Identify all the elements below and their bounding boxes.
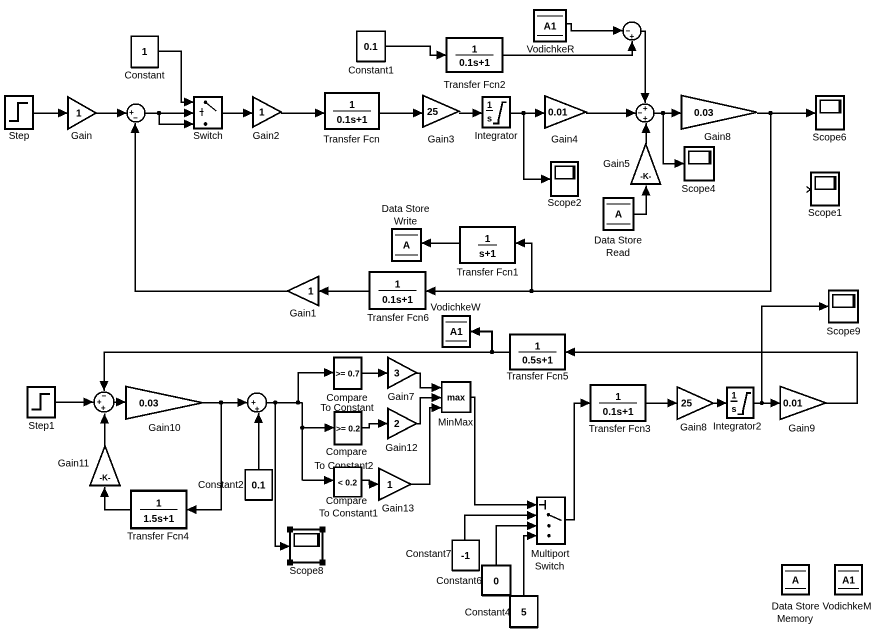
svg-text:Switch: Switch <box>535 562 564 573</box>
svg-text:Scope9: Scope9 <box>827 326 861 337</box>
svg-text:>= 0.2: >= 0.2 <box>336 424 360 434</box>
svg-text:A1: A1 <box>544 21 557 32</box>
svg-text:A: A <box>792 575 799 586</box>
svg-text:VodichkeW: VodichkeW <box>430 303 481 314</box>
svg-text:-1: -1 <box>461 551 470 562</box>
svg-text:Data Store: Data Store <box>594 236 642 247</box>
svg-text:< 0.2: < 0.2 <box>338 478 357 488</box>
svg-text:Scope4: Scope4 <box>682 184 716 195</box>
svg-text:0.5s+1: 0.5s+1 <box>522 356 553 367</box>
svg-text:1: 1 <box>308 287 314 298</box>
svg-text:1: 1 <box>485 234 491 245</box>
svg-text:+: + <box>101 404 106 413</box>
svg-text:Data Store: Data Store <box>772 602 820 613</box>
svg-text:1: 1 <box>387 480 393 491</box>
svg-text:Memory: Memory <box>777 614 813 625</box>
svg-text:0.1s+1: 0.1s+1 <box>603 407 634 418</box>
svg-text:Transfer Fcn1: Transfer Fcn1 <box>457 268 519 279</box>
svg-text:Gain10: Gain10 <box>148 423 181 434</box>
svg-text:A1: A1 <box>842 575 855 586</box>
svg-text:s+1: s+1 <box>479 249 496 260</box>
svg-text:Scope8: Scope8 <box>290 566 324 577</box>
svg-text:Gain1: Gain1 <box>290 308 317 319</box>
svg-text:+: + <box>629 32 634 41</box>
svg-text:Transfer Fcn: Transfer Fcn <box>323 135 379 146</box>
svg-text:0.1: 0.1 <box>364 42 378 53</box>
svg-text:1: 1 <box>349 100 355 111</box>
svg-text:Gain4: Gain4 <box>551 135 578 146</box>
svg-text:-K-: -K- <box>640 172 651 181</box>
svg-text:Write: Write <box>394 217 418 228</box>
svg-text:1: 1 <box>615 392 621 403</box>
svg-text:0.1s+1: 0.1s+1 <box>337 115 368 126</box>
svg-text:Constant: Constant <box>124 71 164 82</box>
svg-text:Constant1: Constant1 <box>348 66 394 77</box>
svg-text:>= 0.7: >= 0.7 <box>335 369 359 379</box>
svg-text:Integrator2: Integrator2 <box>713 422 762 433</box>
svg-text:max: max <box>447 393 465 403</box>
svg-text:0.1: 0.1 <box>252 481 266 492</box>
svg-text:+: + <box>643 114 648 123</box>
svg-text:0.01: 0.01 <box>783 398 803 409</box>
svg-text:1.5s+1: 1.5s+1 <box>143 514 174 525</box>
svg-text:A1: A1 <box>450 327 463 338</box>
svg-text:To Constant1: To Constant1 <box>319 509 378 520</box>
svg-text:−: − <box>133 113 138 122</box>
svg-text:Constant2: Constant2 <box>198 480 244 491</box>
svg-text:+: + <box>255 405 260 414</box>
svg-text:VodichkeM: VodichkeM <box>823 602 872 613</box>
svg-text:1: 1 <box>395 280 401 291</box>
svg-text:s: s <box>731 404 736 414</box>
svg-text:Step: Step <box>9 131 30 142</box>
svg-text:Constant7: Constant7 <box>406 549 452 560</box>
svg-text:5: 5 <box>521 608 527 619</box>
svg-text:Multiport: Multiport <box>531 549 570 560</box>
svg-text:1: 1 <box>76 109 82 120</box>
svg-text:VodichkeR: VodichkeR <box>527 45 575 56</box>
svg-text:1: 1 <box>535 341 541 352</box>
svg-text:Transfer Fcn4: Transfer Fcn4 <box>127 532 189 543</box>
svg-text:Compare: Compare <box>326 496 368 507</box>
svg-text:Switch: Switch <box>193 131 222 142</box>
svg-text:Constant4: Constant4 <box>465 608 511 619</box>
svg-text:Gain12: Gain12 <box>385 443 418 454</box>
svg-text:0: 0 <box>493 577 499 588</box>
svg-text:A: A <box>403 241 410 252</box>
svg-text:Transfer Fcn2: Transfer Fcn2 <box>444 80 506 91</box>
svg-text:1: 1 <box>487 100 492 110</box>
svg-text:Gain7: Gain7 <box>388 392 415 403</box>
svg-text:MinMax: MinMax <box>438 418 473 429</box>
svg-text:-K-: -K- <box>99 474 110 483</box>
svg-text:Gain8: Gain8 <box>680 422 707 433</box>
svg-text:Transfer Fcn6: Transfer Fcn6 <box>367 313 429 324</box>
svg-text:Gain3: Gain3 <box>428 135 455 146</box>
svg-text:25: 25 <box>681 399 693 410</box>
svg-text:1: 1 <box>142 47 148 58</box>
svg-text:Gain5: Gain5 <box>603 159 630 170</box>
svg-text:Gain9: Gain9 <box>788 424 815 435</box>
svg-text:Compare: Compare <box>326 393 368 404</box>
svg-text:1: 1 <box>156 498 162 509</box>
svg-text:Gain: Gain <box>71 131 92 142</box>
svg-text:0.01: 0.01 <box>548 108 568 119</box>
svg-text:Gain2: Gain2 <box>253 131 280 142</box>
svg-text:0.03: 0.03 <box>139 398 159 409</box>
svg-text:Scope6: Scope6 <box>813 133 847 144</box>
svg-text:s: s <box>487 114 492 124</box>
svg-text:Constant6: Constant6 <box>436 576 482 587</box>
svg-text:Read: Read <box>606 248 630 259</box>
svg-text:Transfer Fcn5: Transfer Fcn5 <box>507 372 569 383</box>
svg-text:25: 25 <box>427 107 439 118</box>
svg-text:A: A <box>615 210 622 221</box>
svg-text:Scope1: Scope1 <box>808 208 842 219</box>
svg-text:Integrator: Integrator <box>475 131 518 142</box>
svg-text:2: 2 <box>394 419 400 430</box>
svg-text:Gain13: Gain13 <box>382 504 415 515</box>
svg-text:0.1s+1: 0.1s+1 <box>382 295 413 306</box>
svg-text:−: − <box>101 392 106 401</box>
svg-text:Compare: Compare <box>326 447 368 458</box>
svg-text:−: − <box>637 109 642 118</box>
svg-text:1: 1 <box>472 45 478 56</box>
svg-text:0.1s+1: 0.1s+1 <box>459 58 490 69</box>
svg-text:Data Store: Data Store <box>382 204 430 215</box>
svg-text:Step1: Step1 <box>28 421 55 432</box>
svg-text:Transfer Fcn3: Transfer Fcn3 <box>589 424 651 435</box>
svg-text:1: 1 <box>259 108 265 119</box>
svg-text:3: 3 <box>394 368 400 379</box>
svg-text:Scope2: Scope2 <box>548 198 582 209</box>
svg-text:Gain11: Gain11 <box>58 459 90 470</box>
svg-text:Gain8: Gain8 <box>704 132 731 143</box>
svg-text:0.03: 0.03 <box>694 108 714 119</box>
svg-text:1: 1 <box>731 391 736 401</box>
svg-text:+: + <box>643 104 648 113</box>
